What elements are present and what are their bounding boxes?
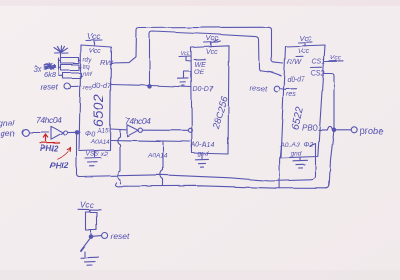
svg-text:reset: reset bbox=[250, 84, 268, 93]
svg-text:Vcc: Vcc bbox=[206, 34, 219, 43]
svg-text:Vcc: Vcc bbox=[87, 32, 100, 41]
svg-text:rdy: rdy bbox=[83, 58, 92, 64]
svg-text:A0..A3: A0..A3 bbox=[279, 142, 300, 149]
svg-text:R/W: R/W bbox=[287, 58, 303, 67]
svg-text:gen: gen bbox=[1, 129, 15, 139]
svg-text:Vcc: Vcc bbox=[299, 34, 312, 43]
svg-text:probe: probe bbox=[359, 126, 383, 136]
svg-text:CS1: CS1 bbox=[312, 59, 326, 66]
svg-text:A0A14: A0A14 bbox=[147, 153, 168, 160]
svg-text:A15: A15 bbox=[96, 128, 109, 135]
svg-text:gnd: gnd bbox=[291, 151, 302, 158]
svg-text:6502: 6502 bbox=[90, 94, 106, 127]
svg-text:reset: reset bbox=[40, 83, 59, 92]
svg-text:D0-D7: D0-D7 bbox=[193, 87, 214, 94]
svg-text:PHI2: PHI2 bbox=[40, 144, 58, 153]
svg-text:OE: OE bbox=[194, 69, 204, 76]
svg-text:VSS x2: VSS x2 bbox=[86, 151, 108, 158]
svg-text:74hc04: 74hc04 bbox=[125, 116, 151, 126]
svg-text:Vcc: Vcc bbox=[89, 48, 101, 55]
svg-text:Vcc: Vcc bbox=[298, 49, 310, 56]
svg-text:gnd: gnd bbox=[198, 151, 209, 158]
svg-text:irq: irq bbox=[83, 65, 90, 71]
svg-text:3x: 3x bbox=[33, 65, 42, 74]
svg-text:Φ2: Φ2 bbox=[304, 142, 314, 149]
svg-text:WE: WE bbox=[194, 62, 206, 69]
svg-text:Vcc: Vcc bbox=[80, 201, 93, 210]
svg-text:PHI2: PHI2 bbox=[50, 161, 69, 171]
svg-text:signal: signal bbox=[0, 118, 15, 128]
svg-text:res: res bbox=[286, 91, 296, 98]
svg-text:reset: reset bbox=[111, 232, 131, 242]
svg-text:d0-d7: d0-d7 bbox=[92, 81, 112, 90]
svg-text:6k8: 6k8 bbox=[44, 70, 57, 79]
svg-text:RW: RW bbox=[100, 58, 113, 67]
svg-text:d0-d7: d0-d7 bbox=[287, 77, 306, 84]
svg-text:CS2: CS2 bbox=[311, 71, 325, 78]
svg-text:Vcc: Vcc bbox=[330, 55, 342, 62]
svg-text:Vcc: Vcc bbox=[206, 49, 218, 56]
svg-text:Vcc: Vcc bbox=[181, 51, 190, 57]
svg-text:PB0: PB0 bbox=[302, 124, 318, 133]
svg-text:Φ0: Φ0 bbox=[85, 131, 95, 138]
svg-text:A0A14: A0A14 bbox=[90, 140, 110, 146]
svg-text:A0-A14: A0-A14 bbox=[190, 142, 214, 149]
svg-text:74hc04: 74hc04 bbox=[36, 115, 62, 125]
svg-text:nmi: nmi bbox=[83, 72, 93, 78]
